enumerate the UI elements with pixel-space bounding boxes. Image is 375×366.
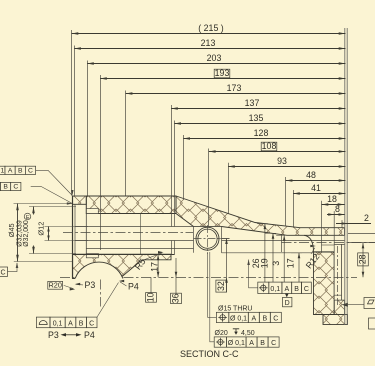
R20 relief cut (white) <box>73 262 124 313</box>
svg-text:4,50: 4,50 <box>241 330 255 337</box>
step wall b <box>174 241 176 255</box>
extension line ext 2 <box>341 220 343 228</box>
dimension (215) overall <box>72 23 346 35</box>
svg-text:128: 128 <box>254 128 269 138</box>
svg-text:( 215 ): ( 215 ) <box>198 23 223 33</box>
centerline right bore <box>282 242 375 244</box>
svg-text:2: 2 <box>364 213 369 223</box>
svg-text:R20: R20 <box>49 280 62 289</box>
svg-text:93: 93 <box>277 156 287 166</box>
dimension 2 <box>336 213 371 225</box>
svg-text:41: 41 <box>311 183 321 193</box>
dimension 32 (boxed) <box>216 239 230 293</box>
part section: right flange bottom step (hatched) <box>323 315 348 325</box>
svg-text:A: A <box>251 315 256 322</box>
dimension 203 <box>87 53 346 65</box>
svg-text:C: C <box>13 184 18 191</box>
extension line ext 213 <box>74 46 76 196</box>
bore step wall <box>140 214 142 255</box>
dimension 137 <box>171 98 346 110</box>
extension line ext 173 <box>125 91 127 196</box>
svg-text:8: 8 <box>335 204 340 214</box>
dimension 18 <box>322 194 345 206</box>
dimension 19 (vertical) <box>260 233 277 282</box>
svg-text:P3: P3 <box>85 280 96 290</box>
svg-text:48: 48 <box>306 170 316 180</box>
extension line ext 18 <box>321 201 323 252</box>
dimension 193 basic <box>100 68 346 80</box>
svg-text:17: 17 <box>150 262 160 272</box>
part section: left flange rim (hatched) <box>73 196 87 204</box>
body bottom edge <box>73 254 175 256</box>
dimension 93 <box>228 156 346 168</box>
bolt hole in right flange (white) <box>334 244 341 300</box>
part left face <box>72 196 74 279</box>
feature control frame profile 0,1 A B C (bottom-left) <box>36 317 97 328</box>
part section: upper wall band (hatched) <box>86 196 176 214</box>
partial frame bottom right <box>369 318 375 329</box>
extension line ext 193 <box>100 75 102 250</box>
svg-text:Ø15 THRU: Ø15 THRU <box>218 306 253 313</box>
svg-text:A: A <box>8 167 13 174</box>
svg-text:173: 173 <box>227 83 242 93</box>
dimension 17 (vertical) <box>286 253 303 282</box>
right flange fillet R12 <box>304 235 314 252</box>
leader from second frame <box>31 186 73 203</box>
dimension 26 (vertical) <box>251 224 268 283</box>
svg-text:0,1: 0,1 <box>0 167 4 174</box>
feature control frame position Ø0,1 A B C (lower) <box>214 337 279 347</box>
svg-text:C: C <box>304 286 309 293</box>
extension line ext 108 <box>208 149 210 227</box>
part section: conical wall (hatched) <box>176 196 345 235</box>
svg-text:A: A <box>249 340 254 347</box>
centerline flange bolt hole <box>337 246 339 305</box>
svg-text:P4: P4 <box>128 282 139 292</box>
extension line ext 203 <box>87 61 89 196</box>
P3 to P4 note <box>48 330 95 340</box>
svg-text:B: B <box>3 184 8 191</box>
extension line ext 48 <box>285 177 287 226</box>
lower groove <box>86 254 98 258</box>
svg-text:B: B <box>294 286 299 293</box>
svg-text:19: 19 <box>260 258 270 268</box>
extension line ext 41 <box>293 190 295 228</box>
datum D box <box>247 260 292 307</box>
datum C box (left) <box>0 263 18 277</box>
callout Ø20 depth 4,50 <box>215 329 255 337</box>
dimension 48 <box>286 170 346 182</box>
part right face (double line) <box>344 28 346 325</box>
tube counterbore step <box>281 236 283 253</box>
svg-text:17: 17 <box>286 258 296 268</box>
R20 arc edge <box>75 262 123 278</box>
svg-text:B: B <box>260 340 265 347</box>
bore line 3 <box>86 248 193 250</box>
svg-text:D: D <box>285 300 290 307</box>
extension line ext 93 <box>228 163 230 214</box>
leader from top-left frame <box>36 170 73 195</box>
feature control frame (left, 0,1 B C) <box>0 182 21 190</box>
svg-text:Ø20: Ø20 <box>215 330 228 337</box>
R12 fillet label <box>304 245 322 271</box>
part section: right flange (hatched) <box>314 252 335 315</box>
svg-text:C: C <box>271 340 276 347</box>
dimension 28 (boxed, right) <box>358 243 369 277</box>
svg-text:Ø 0,1: Ø 0,1 <box>228 340 245 347</box>
centerline bolt circle <box>124 277 358 279</box>
extension line ext 128 <box>183 135 185 200</box>
bore axis step line right <box>222 240 345 242</box>
hole centerline horizontal <box>194 238 230 240</box>
dimension 213 <box>74 38 345 50</box>
dimension 135 <box>174 113 345 125</box>
bore axis step line left <box>75 240 194 242</box>
centerline left bore <box>63 232 193 234</box>
point P4 label <box>119 280 139 292</box>
svg-text:Ø12: Ø12 <box>36 222 45 236</box>
R5 fillet label <box>133 251 164 272</box>
extension line ext 215 <box>71 30 73 196</box>
flange bore left wall <box>74 204 76 255</box>
mating line upper right <box>348 233 375 235</box>
dimension 17 (left) <box>150 255 160 278</box>
dimension 10 (boxed) <box>146 277 157 302</box>
part section: lower boss block (hatched) <box>73 254 171 278</box>
svg-text:137: 137 <box>245 98 260 108</box>
svg-text:18: 18 <box>327 194 337 204</box>
dimension Ø45 <box>7 204 72 262</box>
dimension Ø32.039/32.000 (E) <box>17 207 77 254</box>
hole centerline vertical <box>207 225 209 254</box>
leader from profile frame to arc <box>97 283 119 318</box>
centerline R20 boss <box>100 280 102 307</box>
svg-text:203: 203 <box>207 53 222 63</box>
counterbore face line <box>222 252 314 254</box>
flange top face <box>314 251 335 253</box>
hole pocket edges <box>194 227 222 253</box>
point P3 label <box>75 280 96 290</box>
svg-text:B: B <box>18 167 23 174</box>
counterbore circle Ø20 <box>196 227 219 250</box>
dimension Ø12 <box>36 222 88 241</box>
svg-text:108: 108 <box>262 141 277 151</box>
bore line 2 <box>75 226 194 228</box>
svg-text:0,1: 0,1 <box>53 320 63 327</box>
dimension 173 <box>126 83 346 95</box>
svg-text:C: C <box>273 315 278 322</box>
svg-text:28: 28 <box>358 254 368 264</box>
dimension 108 basic <box>209 141 346 153</box>
centerline bolt circle left <box>60 277 75 279</box>
flange bore right wall <box>85 204 87 255</box>
svg-text:3: 3 <box>271 261 281 266</box>
svg-text:36: 36 <box>171 293 181 303</box>
extension line ext 135 <box>174 121 176 227</box>
svg-text:P3: P3 <box>48 330 59 340</box>
svg-text:135: 135 <box>249 113 264 123</box>
hole pocket (white) <box>194 227 222 253</box>
svg-text:A: A <box>68 320 73 327</box>
R20 label <box>48 280 75 290</box>
feature control frame position Ø0,1 A B C (upper) <box>216 312 281 322</box>
bolt hole edges <box>334 244 344 300</box>
feature control frame position 0,1 A B C (mid) <box>258 282 312 293</box>
svg-text:E: E <box>26 215 30 221</box>
svg-text:C: C <box>0 269 5 276</box>
svg-text:32: 32 <box>216 281 226 291</box>
dimension 36 (boxed) <box>171 258 182 304</box>
extension line ext 137 <box>171 105 173 227</box>
svg-text:C: C <box>28 167 33 174</box>
leader lines to hole <box>208 252 217 317</box>
dimension 41 <box>293 183 346 195</box>
svg-text:193: 193 <box>215 68 230 78</box>
svg-text:10: 10 <box>146 292 156 302</box>
svg-text:A: A <box>284 286 289 293</box>
extension line ext 8 <box>333 211 335 244</box>
tube counterbore line <box>322 244 335 246</box>
step wall a <box>171 241 173 255</box>
dimension 128 <box>183 128 345 140</box>
svg-text:Ø32,000: Ø32,000 <box>23 220 30 247</box>
datum feature symbol on right face <box>342 298 375 309</box>
svg-text:SECTION C-C: SECTION C-C <box>180 349 239 359</box>
dimension 3 (vertical) <box>271 235 287 282</box>
svg-text:P4: P4 <box>84 330 95 340</box>
mating line lower right <box>348 242 375 244</box>
svg-text:B: B <box>262 315 267 322</box>
dimension 8 <box>327 204 345 216</box>
svg-text:Ø 0,1: Ø 0,1 <box>230 315 247 322</box>
feature control frame (top-left, 0,1 A B C) <box>0 166 36 174</box>
svg-text:213: 213 <box>201 38 216 48</box>
svg-text:B: B <box>79 320 84 327</box>
hole circle Ø15 THRU <box>198 229 217 248</box>
svg-text:C: C <box>89 320 94 327</box>
svg-text:Ø45: Ø45 <box>7 223 16 237</box>
svg-text:0,1: 0,1 <box>270 286 280 293</box>
